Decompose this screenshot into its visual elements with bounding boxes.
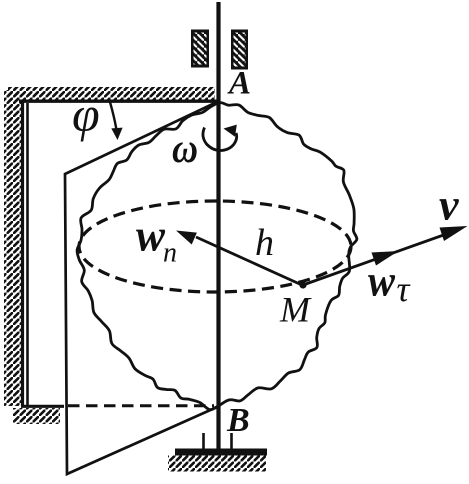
bearing A right block: [231, 30, 248, 70]
svg-text:B: B: [226, 402, 250, 439]
omega rotation arrow: [203, 125, 237, 151]
label w_n: [136, 210, 177, 269]
bearing B left prong: [202, 433, 205, 450]
point M dot: [299, 281, 306, 288]
fixed plane hidden bottom edge (dashed): [68, 404, 214, 407]
svg-text:n: n: [163, 238, 177, 269]
wall top hatched band: [8, 87, 219, 101]
rotating plane through axis: [65, 102, 218, 475]
svg-text:h: h: [255, 222, 274, 264]
wall left hatched band: [4, 90, 23, 406]
fixed plane left edge: [26, 103, 29, 405]
svg-text:w: w: [136, 210, 165, 261]
svg-text:M: M: [279, 290, 312, 330]
axis AB vertical line: [216, 2, 220, 450]
svg-text:v: v: [439, 181, 459, 230]
angle phi arrow: [110, 102, 123, 140]
label w_tau: [368, 257, 411, 310]
radius h line: [196, 237, 303, 286]
svg-text:w: w: [368, 257, 396, 306]
svg-text:ω: ω: [172, 126, 198, 172]
w_tau arrowhead on same ray: [372, 251, 399, 266]
wall bottom ledge: [13, 406, 64, 424]
svg-text:φ: φ: [72, 86, 100, 142]
bearing B ground bar: [175, 449, 267, 456]
svg-text:τ: τ: [397, 269, 411, 309]
body outline (wavy rigid body): [77, 103, 357, 410]
radius h arrowhead: [176, 231, 197, 245]
svg-text:A: A: [227, 66, 251, 102]
velocity v line: [303, 230, 459, 286]
velocity v arrowhead: [440, 226, 468, 241]
bearing A left block: [191, 30, 209, 68]
dashed circle path of M (ellipse): [79, 201, 351, 292]
bearing B right prong: [230, 433, 233, 450]
bearing B ground hatching: [168, 456, 266, 472]
